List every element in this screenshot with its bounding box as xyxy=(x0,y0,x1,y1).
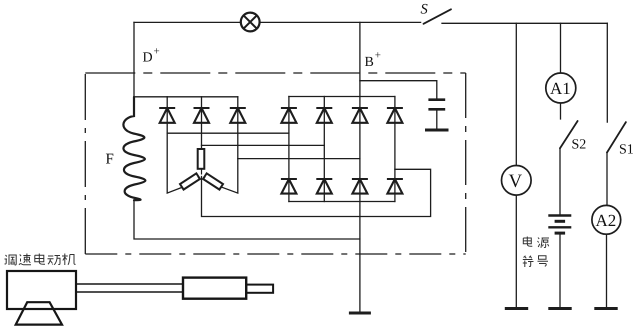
svg-text:F: F xyxy=(106,151,114,167)
svg-text:+: + xyxy=(154,46,160,58)
svg-text:S1: S1 xyxy=(619,143,634,158)
svg-text:V: V xyxy=(509,171,523,192)
svg-text:A2: A2 xyxy=(596,211,617,230)
svg-text:S2: S2 xyxy=(572,137,587,152)
svg-text:S: S xyxy=(421,2,429,18)
svg-text:D: D xyxy=(143,51,153,66)
svg-text:B: B xyxy=(365,55,374,70)
svg-text:A1: A1 xyxy=(550,79,571,98)
svg-text:+: + xyxy=(375,50,381,62)
